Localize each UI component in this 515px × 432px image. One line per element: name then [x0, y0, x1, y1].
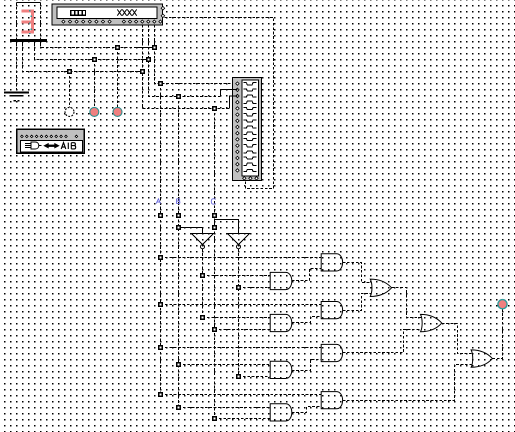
ground symbol	[4, 92, 29, 101]
seven-segment teal corner dots	[29, 10, 32, 34]
seven-segment digit 3	[22, 10, 34, 34]
wire row2 U1out to AND L2	[203, 317, 271, 319]
word generator bottom pins	[62, 20, 162, 23]
wire row3 B to AND L3	[179, 364, 271, 366]
wire OR2 output to OR3	[442, 324, 472, 354]
wire step to switch pin2	[221, 90, 238, 97]
AND gate L2	[270, 314, 292, 331]
junction inverter U2 input	[212, 225, 217, 230]
wire L3 bar to junction	[22, 42, 24, 44]
junction node A	[158, 213, 163, 218]
AND gate L1	[270, 272, 292, 289]
wire v1 word generator to step	[143, 25, 230, 109]
wire C to inverter U2 input	[215, 220, 239, 234]
wire loop word generator to switch bottom	[165, 18, 274, 189]
logic converter AIB label	[61, 143, 76, 149]
word generator right pins	[161, 6, 165, 17]
wire AND L4 output jog to R4	[292, 407, 321, 413]
AND gate L3	[270, 361, 292, 378]
junction row4 C	[212, 416, 217, 421]
wire B to inverter U1 input	[179, 228, 203, 234]
wire row4 B to AND L4	[179, 407, 271, 409]
node label B	[177, 199, 180, 204]
wire ground drop	[16, 42, 18, 44]
logic converter LC1 body	[17, 129, 85, 153]
wire row3 U2out to AND L3	[239, 376, 271, 378]
wire inverter U1 output	[202, 249, 204, 318]
junction inverter U1 input	[176, 225, 181, 230]
switch pack left pins	[236, 82, 239, 172]
inverter U1	[192, 233, 214, 248]
wire v3 word generator to switch pin1	[155, 25, 233, 84]
wire net A vertical	[160, 84, 162, 395]
probe X1 white	[65, 107, 74, 116]
logic converter double arrow	[43, 143, 59, 149]
AND gate R3	[321, 344, 342, 361]
wire AND R3 output to OR2	[343, 330, 421, 353]
node label A	[156, 199, 160, 204]
junction white centers	[69, 47, 240, 420]
wire row4 A to AND R4	[161, 394, 322, 396]
wire AND L3 output jog to R3	[292, 360, 321, 371]
OR gate O2	[421, 314, 442, 331]
wire row4 C to AND L4	[215, 418, 271, 420]
wire drop to white probe	[69, 72, 71, 108]
wire inverter U2 output	[238, 249, 240, 377]
probe X2 red	[90, 107, 99, 116]
wire row3 A to AND R3	[161, 347, 322, 349]
switch pack SW1 body	[233, 77, 262, 180]
junction row2 C	[212, 327, 217, 332]
logic converter gate icon	[25, 142, 42, 149]
wire row1 U1out to AND L1	[203, 275, 271, 277]
wire net C vertical	[214, 109, 216, 419]
wire v2 word generator to step	[149, 25, 221, 97]
AND gate R1	[321, 254, 342, 271]
display connector bar	[10, 39, 47, 42]
junction node C	[212, 213, 217, 218]
wire AND L2 output jog to R2	[292, 317, 321, 323]
wire AND L1 output jog to R1	[292, 269, 321, 281]
word generator XXXX label	[117, 9, 136, 15]
junction L2 right	[146, 57, 151, 62]
word generator dip icon	[70, 10, 86, 16]
junction row2 A	[158, 302, 163, 307]
wire drop to red probe 1	[94, 60, 96, 108]
junction row2 U1out	[200, 315, 205, 320]
junction net B top	[176, 94, 181, 99]
junction node B	[176, 213, 181, 218]
wire drop to red probe 2	[117, 48, 119, 108]
junction row1 U1out	[200, 273, 205, 278]
OR gate O3	[471, 350, 492, 367]
wire AND R4 output to OR3	[343, 365, 472, 401]
wire net B vertical	[178, 97, 180, 408]
wire step to switch pin3	[230, 96, 238, 109]
inverter U2	[228, 233, 250, 248]
AND gate L4	[270, 404, 292, 421]
junction L3-drop	[67, 69, 72, 74]
AND gate R2	[321, 302, 342, 319]
wire AND R2 output to OR1	[343, 294, 371, 311]
junction row4 B	[176, 405, 181, 410]
seven-segment display DISP1 box	[17, 3, 41, 39]
junction net A top	[158, 81, 163, 86]
wire OR3 output to probe X4	[492, 310, 502, 359]
wire AND R1 output to OR1	[343, 263, 371, 283]
switch pack bottom pins	[243, 177, 259, 180]
wire OR1 output to OR2	[392, 288, 421, 318]
junction row3 A	[158, 345, 163, 350]
junction row3 B	[176, 362, 181, 367]
wire L1 bar to junction	[40, 42, 42, 44]
word generator WG1 body	[52, 4, 163, 25]
junction row1 A	[158, 255, 163, 260]
logic converter top pins	[21, 135, 78, 138]
AND gate R4	[321, 392, 342, 409]
junction net C top	[212, 106, 217, 111]
junction L1-drop	[115, 45, 120, 50]
junction L2-drop	[92, 57, 97, 62]
wire L2 bar to junction	[34, 42, 36, 44]
switch pack levers	[244, 83, 257, 172]
wire row1 A to AND R1	[161, 257, 322, 259]
junction L3 right	[140, 69, 145, 74]
probe X3 red	[113, 107, 122, 116]
junction row3 U2out	[236, 374, 241, 379]
node label C	[211, 199, 215, 205]
wire row2 C to AND L2	[215, 329, 271, 331]
junction row1 U2out	[236, 285, 241, 290]
wire row1 U2out to AND L1	[239, 287, 271, 289]
junction row4 A	[158, 392, 163, 397]
OR gate O1	[370, 279, 391, 296]
junction L1 right	[152, 45, 157, 50]
wire row2 A to AND R2	[161, 304, 322, 306]
probe X4 red	[498, 300, 507, 309]
